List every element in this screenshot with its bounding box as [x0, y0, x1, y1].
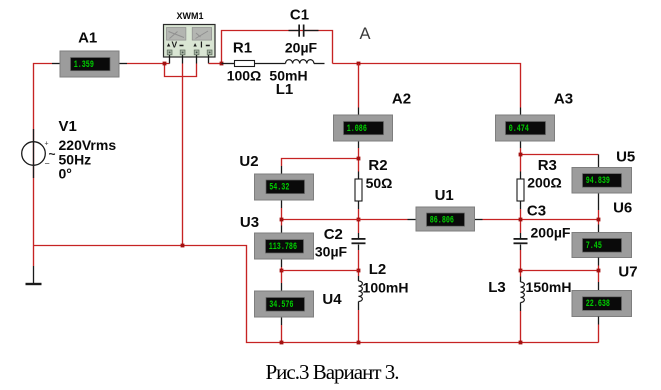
svg-text:A: A [359, 25, 370, 43]
svg-text:L1: L1 [276, 81, 294, 98]
svg-text:22.638: 22.638 [586, 299, 610, 310]
voltmeter U3 [255, 233, 314, 259]
svg-text:200Ω: 200Ω [527, 175, 562, 191]
wire C3 to L3 [520, 250, 522, 277]
wire L2 to rail [358, 310, 360, 343]
svg-text:I: I [200, 40, 202, 50]
svg-text:50Ω: 50Ω [366, 175, 393, 191]
inductor L2 [359, 281, 363, 301]
svg-text:0°: 0° [59, 166, 72, 182]
svg-text:U4: U4 [322, 291, 342, 308]
inductor L1 [286, 60, 314, 64]
resistor R2 [355, 179, 362, 201]
wire node A down to A2 [358, 64, 360, 108]
svg-text:1.359: 1.359 [74, 60, 94, 71]
junction U2 U3 mid bus [280, 218, 284, 222]
junction node A [357, 62, 361, 66]
wire U6 to U7 [598, 266, 600, 283]
voltmeter U2 pins [281, 166, 283, 174]
svg-text:U1: U1 [435, 187, 454, 204]
wire A3 to R3 [520, 148, 522, 172]
wire U3 to U4 [281, 267, 283, 283]
ground [26, 283, 42, 285]
svg-text:54.32: 54.32 [269, 182, 289, 193]
svg-text:1.086: 1.086 [347, 124, 367, 135]
svg-text:R2: R2 [368, 157, 387, 174]
inductor L2 stubs [358, 276, 360, 281]
wire R2 to C2 [358, 209, 360, 233]
junction U4 rail [280, 341, 284, 345]
svg-text:Рис.3 Вариант 3.: Рис.3 Вариант 3. [265, 360, 398, 384]
resistor R3 [517, 179, 524, 201]
wattmeter pin V- [182, 55, 184, 64]
wattmeter pin I+ [196, 55, 198, 64]
svg-text:V: V [172, 40, 178, 50]
wire U5 drop black [598, 155, 600, 168]
junction R2 mid bus [357, 218, 361, 222]
junction C1 left [220, 62, 224, 66]
svg-text:XWM1: XWM1 [177, 11, 204, 21]
svg-text:113.786: 113.786 [269, 242, 297, 253]
svg-text:A1: A1 [78, 30, 97, 47]
svg-text:V1: V1 [59, 118, 77, 135]
svg-text:100mH: 100mH [363, 280, 409, 296]
svg-text:−: − [45, 159, 50, 169]
svg-text:C3: C3 [527, 203, 546, 220]
wire V1 column and top corner to A1 [34, 64, 53, 246]
wattmeter XWM1 [164, 25, 216, 58]
junction wattmeter loop [163, 62, 167, 66]
svg-text:U7: U7 [618, 264, 637, 281]
voltmeter U1 pins [408, 219, 417, 221]
voltmeter U6 [572, 233, 632, 258]
svg-text:100Ω: 100Ω [227, 68, 262, 84]
svg-text:94.839: 94.839 [586, 176, 610, 187]
junction C3 L3 tap [519, 269, 523, 273]
svg-text:L2: L2 [369, 261, 387, 278]
svg-text:30µF: 30µF [315, 244, 348, 260]
wire L3 to rail [520, 311, 522, 343]
voltmeter U7 [572, 291, 632, 317]
voltmeter U2 [255, 174, 314, 200]
ammeter A2 [334, 115, 393, 141]
resistor R1 leads [222, 63, 235, 65]
inductor L1 lead [314, 63, 325, 65]
svg-text:L3: L3 [488, 279, 506, 296]
wire mid rail V1 to leg to bottom rail [34, 246, 599, 343]
inductor L3 [521, 282, 525, 302]
capacitor C1 leads [289, 30, 299, 32]
svg-text:A2: A2 [392, 90, 411, 107]
svg-text:150mH: 150mH [526, 279, 572, 295]
wire mid bus right segment [483, 219, 599, 221]
junction L3 rail [519, 341, 523, 345]
voltmeter U5 pins [598, 193, 600, 210]
wire U5 to U6 [598, 210, 600, 225]
junction L2 rail [357, 341, 361, 345]
capacitor C3 stubs [520, 233, 522, 238]
voltmeter U4 [255, 291, 314, 317]
svg-text:0.474: 0.474 [509, 124, 529, 135]
wire C2 to L2 [358, 250, 360, 276]
wire tap to U2 [282, 159, 359, 167]
junction A3 tap [519, 153, 523, 157]
resistor R3 stubs [520, 172, 522, 180]
svg-text:R3: R3 [538, 157, 557, 174]
wire V- down to mid rail [182, 64, 184, 246]
wire top bus to A3 [333, 64, 521, 108]
wire U4 to rail [281, 325, 283, 343]
svg-text:34.576: 34.576 [269, 300, 293, 311]
junction C2 L2 tap [357, 269, 361, 273]
ammeter A1 pins [52, 63, 60, 65]
svg-text:C1: C1 [290, 7, 309, 24]
svg-text:U3: U3 [240, 214, 259, 231]
ammeter A3 [496, 115, 555, 141]
wire I- to C1 junction [209, 63, 222, 65]
wire V+ to I+ loop [165, 64, 197, 77]
voltmeter U3 pins [281, 226, 283, 234]
wire U2 to U3 [281, 208, 283, 226]
wire mid bus left segment [282, 219, 408, 221]
inductor L3 stubs [520, 277, 522, 283]
voltmeter U6 U7 pins [598, 258, 600, 266]
capacitor C2 [352, 238, 366, 244]
voltmeter U5 [572, 168, 632, 194]
ammeter A2 pins [358, 108, 360, 116]
wire lower tap left [282, 270, 359, 272]
wattmeter pin V+ [169, 55, 171, 64]
voltmeter U4 pins [281, 283, 283, 291]
svg-text:20µF: 20µF [285, 40, 318, 56]
svg-text:U5: U5 [616, 149, 635, 166]
voltmeter U1 [416, 207, 475, 231]
svg-text:A3: A3 [554, 90, 573, 107]
wire lower tap right [521, 270, 599, 272]
wire R3 to C3 [520, 209, 522, 233]
junction A2 tap [357, 157, 361, 161]
ammeter A1 [60, 51, 119, 77]
wattmeter pin I- [208, 55, 210, 64]
wire tap A3 to U5 [521, 154, 599, 156]
capacitor C2 stubs [358, 233, 360, 238]
junction U3 U4 tap [280, 269, 284, 273]
svg-text:U6: U6 [613, 200, 632, 217]
junction U6 U7 tap [597, 269, 601, 273]
wire U7 to rail [598, 317, 600, 325]
resistor R1 [235, 61, 255, 67]
junction R3 mid bus [519, 218, 523, 222]
svg-text:86.806: 86.806 [430, 215, 454, 226]
wire A1 to wattmeter [127, 63, 170, 65]
capacitor C1 [298, 25, 304, 37]
svg-text:7.45: 7.45 [586, 241, 602, 252]
svg-text:R1: R1 [233, 40, 252, 57]
ammeter A3 pins [520, 108, 522, 116]
source V1 [22, 141, 56, 169]
resistor R2 stubs [358, 172, 360, 180]
wire A2 to R2 [358, 148, 360, 172]
svg-text:200µF: 200µF [531, 225, 571, 241]
svg-text:U2: U2 [239, 153, 258, 170]
wire black lead through source V1 [33, 129, 35, 178]
junction U5 U6 bus [597, 218, 601, 222]
capacitor C3 [514, 238, 528, 244]
junction V- mid rail [181, 244, 185, 248]
ground lead [33, 246, 35, 267]
svg-text:C2: C2 [324, 226, 343, 243]
wire C1 parallel loop [222, 31, 333, 64]
